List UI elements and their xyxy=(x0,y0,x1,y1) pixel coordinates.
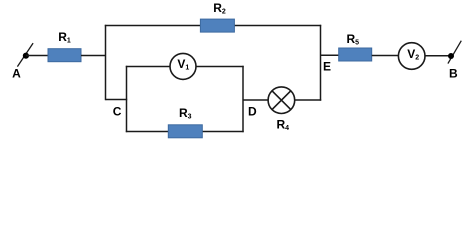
svg-text:A: A xyxy=(12,67,21,81)
terminal A slash xyxy=(17,43,33,67)
svg-text:R4: R4 xyxy=(277,118,290,133)
resistor R5 xyxy=(339,48,372,61)
wire D to lamp xyxy=(243,99,269,101)
wire inner box left vertical xyxy=(126,66,128,132)
resistor R2 xyxy=(200,19,234,32)
svg-text:R5: R5 xyxy=(347,32,360,47)
wire V2 to B xyxy=(425,55,451,57)
svg-text:B: B xyxy=(449,67,458,81)
wire lamp to right vertical xyxy=(295,99,322,101)
wire feed to node C xyxy=(106,99,128,101)
voltmeter V1 xyxy=(170,53,196,79)
svg-text:R1: R1 xyxy=(58,30,71,45)
wire inner box right vertical xyxy=(242,66,244,132)
wire inner box top horizontal xyxy=(126,66,244,68)
terminal B slash xyxy=(448,41,461,64)
lamp R4 xyxy=(268,87,295,114)
voltmeter V2 xyxy=(398,43,425,70)
wire outer loop left vertical xyxy=(105,25,107,100)
wire outer loop top horizontal xyxy=(105,25,321,27)
terminal B dot xyxy=(448,53,454,59)
wire inner box bottom horizontal xyxy=(126,131,244,133)
resistor R3 xyxy=(168,125,202,138)
wire R1 to left junction xyxy=(81,55,106,57)
svg-text:D: D xyxy=(248,104,257,118)
wire R5 to V2 xyxy=(372,55,399,57)
terminal A dot xyxy=(23,53,29,59)
svg-text:R2: R2 xyxy=(213,1,226,16)
svg-text:R3: R3 xyxy=(179,106,192,121)
resistor R1 xyxy=(48,49,81,62)
wire outer loop right vertical xyxy=(320,25,322,101)
svg-text:E: E xyxy=(323,60,331,74)
wire E to R5 xyxy=(321,54,340,56)
wire A to R1 xyxy=(26,55,48,57)
svg-text:C: C xyxy=(113,104,122,118)
